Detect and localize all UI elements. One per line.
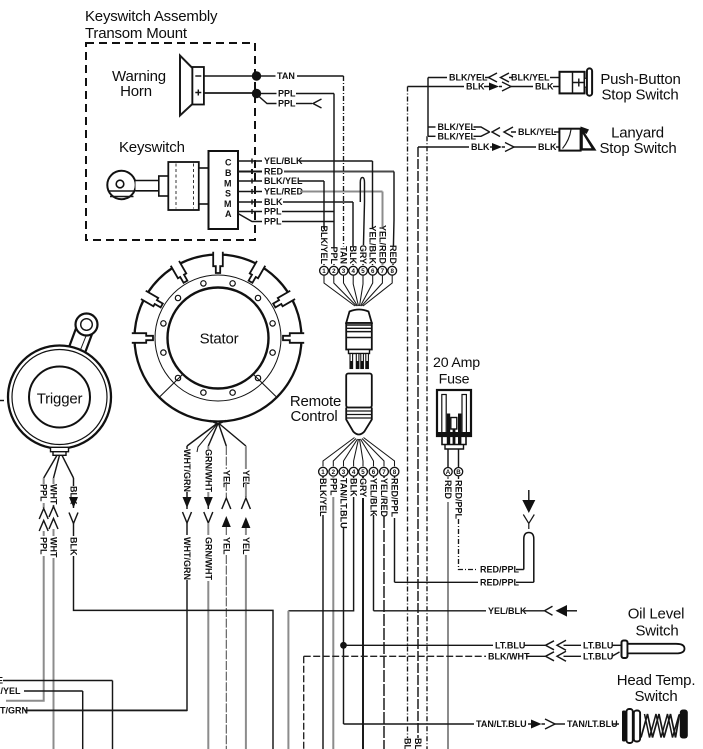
svg-text:2: 2 [332,268,336,275]
20 amp fuse holder symbol [437,390,471,449]
svg-text:RED: RED [443,480,453,500]
wire: horn negative to TAN junction [204,75,253,77]
wire RED from terminal B to pin8 column [238,167,394,177]
svg-text:RED: RED [264,167,284,177]
vertical label YEL/BLK below bottom pin6 [369,478,379,517]
svg-text:Horn: Horn [120,83,152,100]
wire column from bottom pin8 to RED/PPL row [394,476,396,582]
wire RED/PPL from bottom pin8 right to bullet connector [395,578,534,588]
svg-text:BLK: BLK [348,246,358,265]
vertical label BLK at bottom of push-button BLK column [403,738,413,749]
trigger lead BLK with connector arrows [69,478,274,749]
wire column to top pin 8 [393,172,394,266]
svg-text:TAN/LT.BLU: TAN/LT.BLU [476,719,527,729]
remote control receptacle (female half) [346,374,372,435]
vertical label RED/PPL below bottom pin8 [390,478,400,518]
wire column from bottom pin4 jog left to page bottom [288,476,353,611]
svg-text:TAN/LT.BLU: TAN/LT.BLU [567,719,618,729]
stator lead YEL second with connector arrows [241,446,251,749]
vertical label GRY below bottom pin5 [358,478,368,497]
svg-text:GRN/WHT: GRN/WHT [203,537,213,580]
svg-text:PPL: PPL [278,89,296,99]
vertical label PPL below bottom pin2 [328,478,338,496]
svg-text:YEL: YEL [221,537,231,555]
vertical label RED/PPL below fuse pin B [454,480,464,520]
svg-text:YEL/BLK: YEL/BLK [369,478,379,517]
svg-text:TAN: TAN [339,246,349,264]
svg-text:PPL: PPL [328,478,338,496]
svg-text:PPL: PPL [39,537,49,555]
20 amp fuse label [433,355,480,388]
svg-text:B: B [225,168,232,178]
svg-text:YEL/BLK: YEL/BLK [368,225,378,264]
vertical label GRY above pin5 [358,245,368,264]
wire BLK/WHT row to oil level switch [304,651,620,661]
oil level switch symbol [622,641,685,659]
stator section radial lines [159,375,277,398]
wire PPL second from terminal A to pin2 column [238,214,334,227]
remote control label [290,393,341,425]
vertical label YEL/RED above pin7 [378,225,388,265]
trigger lever arm [68,314,97,356]
mating down-arrow connector above bullet [522,490,535,529]
vertical label TAN/LT.BLU below bottom pin3 [339,478,349,529]
svg-text:Transom Mount: Transom Mount [85,25,188,42]
svg-text:WHT: WHT [49,537,59,558]
wire BLK/YEL push-button stop switch row [428,73,561,83]
wire column to top pin 7 [382,192,384,266]
warning horn symbol [180,56,204,116]
svg-text:BLK: BLK [535,82,554,92]
head temp switch label [617,672,696,705]
svg-text:BLK: BLK [403,738,413,749]
svg-text:BLK: BLK [349,478,359,497]
svg-text:BLK: BLK [538,142,557,152]
svg-text:LT.BLU: LT.BLU [495,641,525,651]
svg-text:20 Amp: 20 Amp [433,355,480,371]
wire BLK/YEL lanyard merged row with connector chevrons [492,127,559,137]
svg-text:PPL: PPL [278,99,296,109]
stator lead GRN/WHT with connector arrows [203,446,213,749]
vertical label BLK at bottom of lanyard BLK column [413,738,423,749]
vertical label PPL above pin2 [329,246,339,264]
vertical label BLK/YEL above pin1 [319,225,329,264]
oil level switch label [628,606,685,640]
svg-text:E: E [0,676,3,686]
push-button stop switch symbol [560,68,593,95]
svg-text:GRY: GRY [358,245,368,264]
stator lead WHT/GRN with connector arrows [25,446,192,710]
svg-text:YEL/BLK: YEL/BLK [264,156,303,166]
svg-text:C: C [225,158,232,168]
wire TAN from horn to pin3 column [261,71,344,81]
svg-text:3: 3 [342,469,346,476]
svg-text:BLK/YEL: BLK/YEL [518,127,557,137]
keyswitch symbol: key bow [107,171,135,199]
svg-text:7: 7 [381,268,385,275]
svg-text:RED/PPL: RED/PPL [480,565,520,575]
vertical label RED below fuse pin A [443,480,453,500]
wire column to top pin 6 [372,161,374,265]
svg-text:Switch: Switch [635,688,678,705]
wire YEL/BLK row to oil level switch arrow [374,605,578,617]
svg-text:YEL/RED: YEL/RED [264,187,304,197]
svg-text:PPL: PPL [329,246,339,264]
wire: vertical BLK from push-button down to bottom [407,87,409,749]
svg-text:2: 2 [332,469,336,476]
svg-text:BLK/YEL: BLK/YEL [0,686,21,696]
fuse pin A [444,468,452,476]
stator bottom lead exit [210,421,226,425]
stator slot notches [132,252,304,343]
fuse wires to pins A and B [447,449,449,468]
stator outer ring [135,255,302,422]
wire fan from top pins into plug [324,275,392,306]
keyswitch assembly dashed enclosure box [86,43,255,240]
wire column from bottom pin5 to page bottom [362,476,364,749]
svg-text:RED/PPL: RED/PPL [390,478,400,518]
svg-text:B: B [456,469,461,476]
svg-text:BLK/YEL: BLK/YEL [438,132,477,142]
wire column from bottom pin7 to page bottom [383,476,385,749]
svg-text:YEL/RED: YEL/RED [379,478,389,518]
wire BLK/YEL lanyard row 1 [428,122,490,132]
vertical label RED above pin8 [388,245,398,265]
junction bullet TAN [252,71,261,80]
svg-text:GRN/WHT: GRN/WHT [203,449,213,492]
trigger wire fan [44,455,74,478]
svg-text:LT.BLU: LT.BLU [583,652,613,662]
svg-text:Fuse: Fuse [439,372,470,388]
svg-text:BLK: BLK [69,537,79,556]
trigger bottom grommet [51,447,69,455]
small wire stub at left edge [0,400,4,402]
warning horn label [112,68,166,100]
svg-text:8: 8 [393,469,397,476]
push-button stop switch label [600,71,680,104]
svg-text:GRY: GRY [358,478,368,497]
svg-text:Control: Control [291,408,338,425]
top connector pin circles 1-8 [320,266,397,275]
wire BLK push-button stop switch row [408,82,562,92]
wire: vertical BLK from lanyard down to bottom [417,147,419,749]
trigger lead PPL with connector arrows [6,478,49,701]
wire RED from fuse pin A to page bottom [447,476,449,749]
wire PPL from terminal A to pin2 column [238,207,334,217]
vertical label YEL/BLK above pin6 [368,225,378,264]
svg-text:YEL/BLK: YEL/BLK [488,606,527,616]
wire TAN/LT.BLU row to head temp switch [344,719,620,729]
vertical label TAN above pin3 [339,246,349,264]
wire column to top pin 4 [352,202,354,265]
svg-text:6: 6 [372,469,376,476]
wire row BLK/YEL cut label at left edge [0,686,83,749]
svg-text:1: 1 [321,469,325,476]
svg-text:Oil Level: Oil Level [628,606,685,623]
svg-text:BLK: BLK [471,142,490,152]
svg-text:TAN/LT.BLU: TAN/LT.BLU [339,478,349,529]
junction bullet PPL [252,89,261,98]
svg-text:TAN: TAN [277,71,295,81]
svg-text:S: S [225,189,231,199]
trigger lead WHT with connector arrows [49,478,59,749]
wire PPL from horn to pin2 column [261,89,335,99]
svg-text:M: M [224,199,232,209]
trigger body rings [8,346,111,449]
svg-text:1: 1 [322,268,326,275]
svg-text:YEL/RED: YEL/RED [378,225,388,265]
keyswitch symbol: key blade [136,181,159,191]
wire column from bottom pin3 to TAN/LT.BLU row with junction to LT.BLU [343,476,345,724]
svg-text:BLK/YEL: BLK/YEL [264,176,303,186]
vertical label BLK above pin4 [348,246,358,265]
svg-text:3: 3 [342,268,346,275]
wire YEL/RED from terminal S to pin7 column [238,187,383,197]
stator wire fan to leads [187,424,246,453]
svg-text:4: 4 [351,268,355,275]
wire GRY hook loop above pin5 [360,178,364,203]
svg-text:RED/PPL: RED/PPL [480,578,520,588]
wire: horn positive to PPL junction [204,92,253,94]
wire column from bottom pin6 to oil level row [373,476,375,611]
svg-text:A: A [446,469,451,476]
wire RED/PPL from fuse pin B down and right to bullet connector [459,476,524,575]
stator bolt holes [161,281,276,396]
bottom connector pin circles 1-8 [319,467,399,476]
wire BLK from terminal M2 to pin4 column [238,197,353,207]
bullet connector shell [524,533,534,583]
svg-text:WHT/GRN: WHT/GRN [0,706,28,716]
vertical label YEL/RED below bottom pin7 [379,478,389,518]
svg-text:PPL: PPL [39,484,49,502]
remote control plug (male half) [346,310,372,369]
svg-text:WHT/GRN: WHT/GRN [182,449,192,492]
wire column to top pin 2 [333,94,335,266]
svg-text:YEL: YEL [241,537,251,555]
vertical label BLK/YEL below bottom pin1 [318,478,328,517]
head temp switch symbol [622,709,688,743]
svg-text:PPL: PPL [264,217,282,227]
lanyard stop switch label [599,125,676,157]
svg-text:8: 8 [390,268,394,275]
wire: vertical BLK/YEL linking push-button to lanyard rows [427,78,429,137]
wire BLK/YEL lanyard row 2 [428,132,490,142]
svg-text:WHT/GRN: WHT/GRN [182,537,192,580]
svg-text:RED: RED [388,245,398,265]
wire column from bottom pin1 to page bottom [322,476,324,749]
svg-text:7: 7 [382,469,386,476]
wire column to top pin 1 [323,181,325,265]
svg-text:M: M [224,178,232,188]
wire column to top pin 3 [343,76,345,265]
svg-text:BLK: BLK [264,197,283,207]
svg-text:BLK/WHT: BLK/WHT [488,652,530,662]
label: Keyswitch Assembly Transom Mount title [85,8,218,42]
svg-text:BLK/YEL: BLK/YEL [319,225,329,264]
svg-text:A: A [225,209,232,219]
junction dot LT.BLU tap [340,642,347,649]
wire column from bottom pin2 to page bottom [332,476,334,749]
svg-text:Stop Switch: Stop Switch [599,140,676,157]
wire fan from receptacle to bottom pins [323,438,395,467]
svg-text:Stop Switch: Stop Switch [601,87,678,104]
wire YEL/BLK from terminal C to pin6 column [238,156,373,166]
lanyard stop switch symbol [559,127,596,151]
wire BLK lanyard row [418,142,559,152]
svg-text:LT.BLU: LT.BLU [583,641,613,651]
svg-text:5: 5 [361,469,365,476]
wire column BLK/WHT to page bottom [303,656,305,749]
svg-text:4: 4 [352,469,356,476]
wire PPL stub with open connector chevron [259,97,322,109]
vertical label BLK below bottom pin4 [349,478,359,497]
keyswitch symbol: switch body barrel [159,162,209,210]
wire: vertical BLK/YEL dash-dot down to bottom [426,136,428,749]
svg-text:Keyswitch Assembly: Keyswitch Assembly [85,8,218,25]
svg-text:PPL: PPL [264,207,282,217]
svg-text:Keyswitch: Keyswitch [119,139,185,156]
svg-text:RED/PPL: RED/PPL [454,480,464,520]
wire row WHT/GRN cut label at left edge [0,706,187,716]
svg-text:Stator: Stator [200,331,239,348]
wire BLK/YEL from terminal M to pin1 column [238,176,324,186]
svg-text:Trigger: Trigger [37,391,83,408]
svg-text:5: 5 [361,268,365,275]
svg-text:Head Temp.: Head Temp. [617,672,696,689]
fuse pin B [454,468,462,476]
svg-text:6: 6 [371,268,375,275]
keyswitch terminal plate with C B M S M A [209,151,239,229]
wire column to top pin 5 [363,202,365,265]
svg-text:Push-Button: Push-Button [600,71,680,88]
svg-text:BLK/YEL: BLK/YEL [318,478,328,517]
svg-text:Switch: Switch [636,623,679,640]
wire row bottom-left cut label to column [0,676,113,749]
stator lead YEL first with connector arrows [221,446,231,749]
svg-text:BLK: BLK [413,738,423,749]
wire LT.BLU row from junction to oil level switch [344,640,622,650]
svg-text:WHT: WHT [49,484,59,505]
svg-text:BLK: BLK [466,82,485,92]
